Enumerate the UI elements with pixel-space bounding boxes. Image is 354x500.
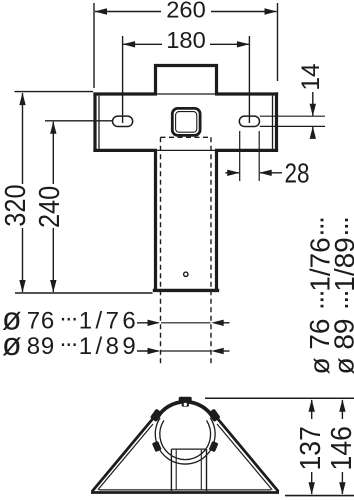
svg-text:ø 89 ···1/89···: ø 89 ···1/89··· xyxy=(329,218,354,374)
svg-text:146: 146 xyxy=(326,426,354,470)
svg-text:28: 28 xyxy=(285,158,310,189)
svg-text:180: 180 xyxy=(166,27,206,53)
svg-text:260: 260 xyxy=(166,0,206,23)
svg-text:320: 320 xyxy=(0,184,32,226)
svg-text:240: 240 xyxy=(34,186,66,228)
svg-text:ø89···1/89: ø89···1/89 xyxy=(2,326,139,362)
svg-text:14: 14 xyxy=(297,63,325,90)
svg-text:137: 137 xyxy=(295,426,327,470)
